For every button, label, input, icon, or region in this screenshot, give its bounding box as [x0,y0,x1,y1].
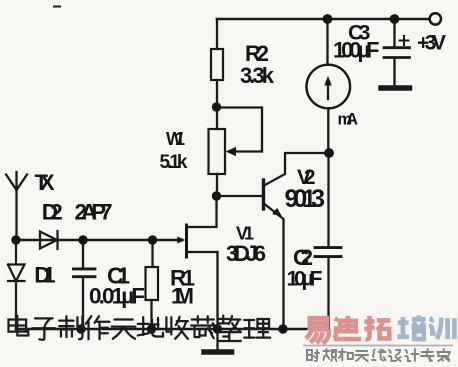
svg-text:0.01µF: 0.01µF [89,284,145,309]
svg-text:100µF: 100µF [333,38,380,63]
svg-text:3DJ6: 3DJ6 [226,241,266,266]
svg-text:D2: D2 [42,200,63,225]
svg-text:1M: 1M [171,284,194,309]
svg-text:2AP7: 2AP7 [75,200,113,225]
svg-text:W1: W1 [166,129,185,149]
svg-text:10µF: 10µF [287,267,323,291]
svg-text:D1: D1 [34,263,55,288]
svg-text:3.3k: 3.3k [240,63,275,88]
svg-text:mA: mA [338,111,359,129]
svg-text:+3V: +3V [417,32,446,55]
svg-text:5.1k: 5.1k [160,152,188,173]
svg-text:9013: 9013 [285,185,326,213]
svg-text:TX: TX [35,170,55,195]
